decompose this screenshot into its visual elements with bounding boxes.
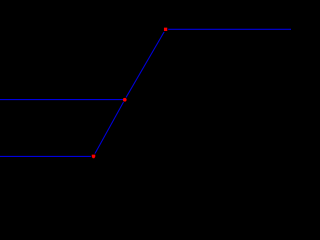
node marker middle (round) (123, 98, 127, 102)
node marker top (square) (164, 28, 167, 31)
marker halo bottom (91, 154, 96, 159)
wire top-right horizontal segment (166, 28, 291, 30)
chart canvas (0, 0, 291, 180)
node marker bottom (triangle-down) (92, 155, 96, 159)
wire diagonal segment upper (125, 29, 166, 99)
wire lower-left horizontal segment (0, 155, 94, 157)
wire diagonal segment lower (94, 100, 125, 157)
wire middle-left horizontal segment (0, 99, 124, 101)
marker halo middle (122, 97, 127, 102)
marker halo top (163, 27, 168, 32)
